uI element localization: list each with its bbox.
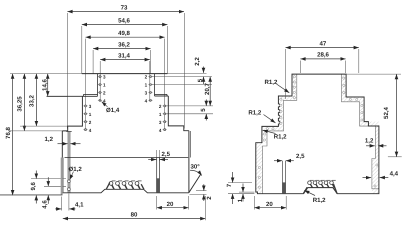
svg-text:9,6: 9,6 [30,181,37,190]
svg-text:1: 1 [89,112,92,117]
svg-text:49,8: 49,8 [118,30,130,37]
svg-text:14,6: 14,6 [41,78,48,90]
svg-text:4,1: 4,1 [75,202,84,209]
svg-text:80: 80 [131,212,138,219]
svg-text:4: 4 [145,98,148,103]
svg-text:R1,2: R1,2 [265,79,278,86]
svg-text:2: 2 [89,120,92,125]
svg-text:2,2: 2,2 [194,57,201,66]
svg-text:2,5: 2,5 [162,151,171,158]
svg-text:36,2: 36,2 [118,41,130,48]
svg-text:2: 2 [145,75,148,80]
svg-text:4,4: 4,4 [390,171,399,178]
svg-text:3: 3 [89,104,92,109]
svg-text:28,6: 28,6 [317,52,329,59]
svg-text:1,2: 1,2 [365,138,374,145]
svg-text:1: 1 [103,83,106,88]
svg-text:2,5: 2,5 [296,153,305,160]
svg-text:76,8: 76,8 [5,126,12,138]
svg-text:R1,2: R1,2 [274,133,287,140]
svg-text:3: 3 [145,90,148,95]
svg-text:3: 3 [103,75,106,80]
svg-text:R1,2: R1,2 [313,197,326,204]
svg-text:30°: 30° [191,164,201,171]
svg-text:52,4: 52,4 [383,106,390,118]
svg-text:4: 4 [103,98,106,103]
svg-text:47: 47 [320,40,327,47]
svg-text:4: 4 [89,128,92,133]
svg-text:33,2: 33,2 [28,94,35,106]
svg-text:R1,2: R1,2 [248,110,261,117]
svg-text:20: 20 [167,201,174,208]
svg-text:2: 2 [103,90,106,95]
svg-text:31,4: 31,4 [118,52,130,59]
svg-text:54,6: 54,6 [118,17,130,24]
svg-text:4,6: 4,6 [41,200,48,209]
svg-text:36,25: 36,25 [16,96,23,112]
svg-text:Ø1,4: Ø1,4 [106,107,120,114]
svg-text:20,7: 20,7 [204,82,211,94]
svg-text:2: 2 [159,104,162,109]
svg-text:1: 1 [145,83,148,88]
svg-text:1: 1 [159,112,162,117]
svg-text:3: 3 [159,120,162,125]
svg-text:20: 20 [266,201,273,208]
svg-text:73: 73 [121,4,128,11]
svg-text:Ø1,2: Ø1,2 [69,166,83,173]
svg-text:1,2: 1,2 [45,136,54,143]
svg-text:4: 4 [159,128,162,133]
